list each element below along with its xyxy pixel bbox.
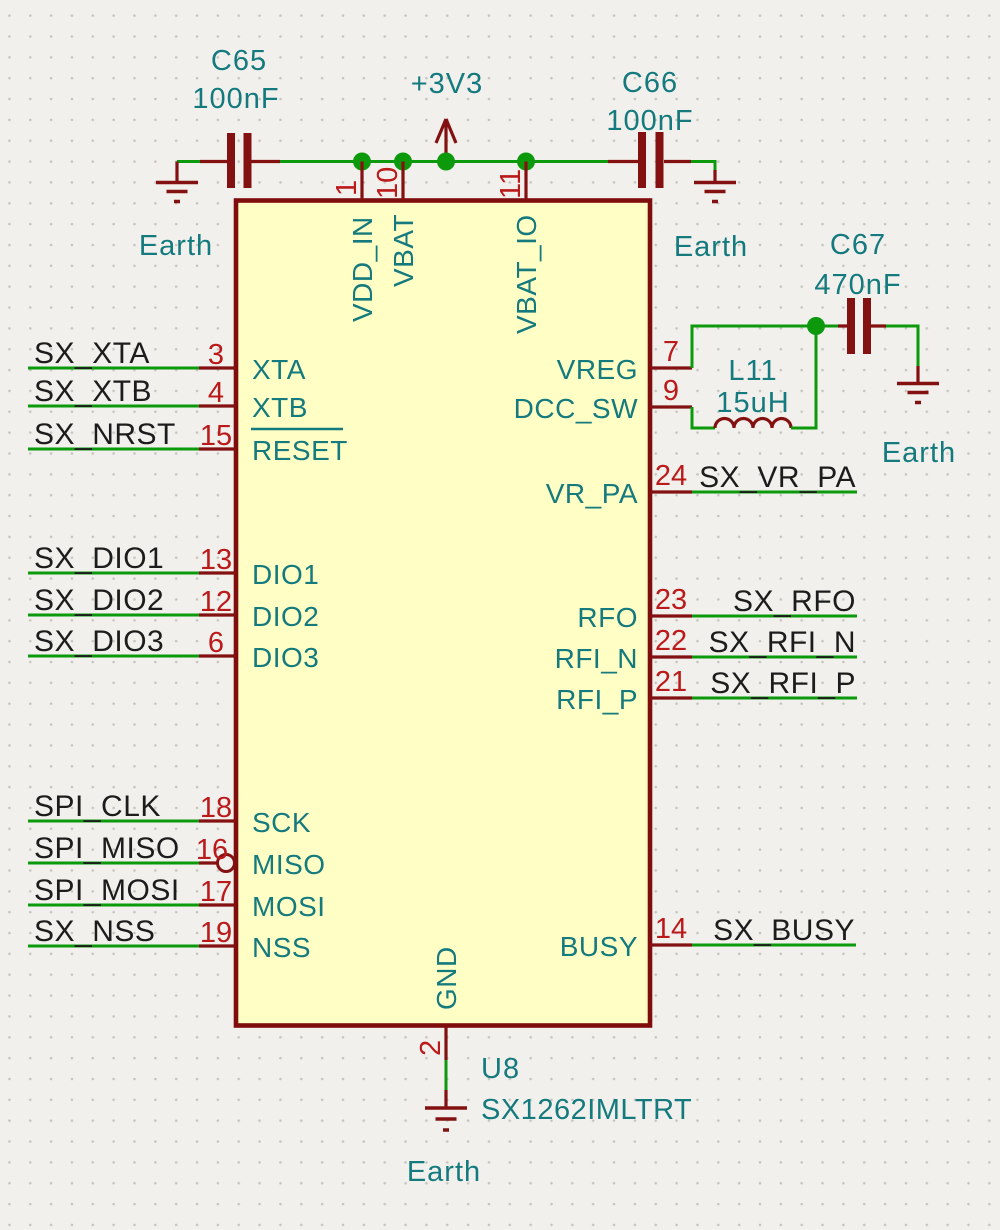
svg-text:SX_NRST: SX_NRST <box>34 418 176 451</box>
svg-text:12: 12 <box>200 586 232 618</box>
svg-text:VREG: VREG <box>557 354 638 385</box>
junction (C67 node) <box>807 317 825 335</box>
value 470nF <box>814 269 901 301</box>
net label SX_NRST <box>34 418 176 451</box>
svg-text:Earth: Earth <box>882 437 956 469</box>
junction (pin 10) <box>394 153 412 171</box>
svg-text:100nF: 100nF <box>192 83 279 115</box>
net label SX_XTB <box>34 375 152 408</box>
IC U8 body <box>236 201 650 1026</box>
value 15uH <box>716 387 789 419</box>
pin 15 RESET <box>199 420 348 466</box>
svg-text:C67: C67 <box>830 229 886 261</box>
pin 10 VBAT <box>372 162 419 288</box>
wire SX_VR_PA <box>692 491 857 494</box>
pin 9 DCC_SW <box>514 375 692 424</box>
wire VREG to node <box>692 326 816 368</box>
wire SPI_MISO <box>28 862 199 865</box>
svg-text:C66: C66 <box>622 67 678 99</box>
svg-text:Earth: Earth <box>407 1156 481 1188</box>
wire SX_XTA <box>28 367 199 370</box>
svg-text:SPI_MOSI: SPI_MOSI <box>34 874 180 907</box>
wire node to C67 <box>816 325 838 328</box>
ground (top right) <box>694 170 736 202</box>
pin 4 XTB <box>199 377 308 423</box>
svg-text:SX_DIO3: SX_DIO3 <box>34 625 164 658</box>
svg-text:470nF: 470nF <box>814 269 901 301</box>
junction (pin 1) <box>353 153 371 171</box>
wire SX_BUSY <box>692 944 856 947</box>
svg-text:VR_PA: VR_PA <box>546 478 638 509</box>
wire C66 to right ground <box>691 162 715 173</box>
wire SX_RFO <box>692 615 857 618</box>
wire DCC_SW to L11 <box>692 407 715 428</box>
svg-text:4: 4 <box>208 377 224 409</box>
svg-text:MOSI: MOSI <box>252 891 326 922</box>
pin 12 DIO2 <box>199 586 319 632</box>
svg-text:XTB: XTB <box>252 392 308 423</box>
svg-text:SX_DIO1: SX_DIO1 <box>34 542 164 575</box>
junction (pin 11) <box>517 153 535 171</box>
pin 21 RFI_P <box>556 666 692 715</box>
svg-text:RFI_P: RFI_P <box>556 684 638 715</box>
svg-text:VBAT_IO: VBAT_IO <box>511 214 542 334</box>
net label SX_XTA <box>34 337 150 370</box>
label C67 <box>830 229 886 261</box>
pin 2 GND <box>415 946 462 1060</box>
svg-text:SX1262IMLTRT: SX1262IMLTRT <box>481 1094 692 1126</box>
svg-text:SCK: SCK <box>252 807 311 838</box>
svg-text:2: 2 <box>415 1040 447 1056</box>
wire SX_DIO1 <box>28 572 199 575</box>
svg-text:DIO1: DIO1 <box>252 559 319 590</box>
svg-text:SX_RFI_P: SX_RFI_P <box>710 667 856 700</box>
net label SX_RFI_P <box>710 667 856 700</box>
wire C67 to ground <box>886 326 918 366</box>
wire SX_DIO3 <box>28 655 199 658</box>
pin 18 SCK <box>199 792 311 838</box>
svg-text:SPI_CLK: SPI_CLK <box>34 790 161 823</box>
wire SX_NSS <box>28 945 199 948</box>
net label SPI_MOSI <box>34 874 180 907</box>
wire L11 to node <box>791 326 816 428</box>
svg-text:SX_RFI_N: SX_RFI_N <box>709 626 856 659</box>
value 100nF (C66) <box>606 105 693 137</box>
svg-text:L11: L11 <box>728 355 777 387</box>
ground (C67) <box>897 366 939 403</box>
svg-text:VDD_IN: VDD_IN <box>347 216 378 322</box>
svg-text:+3V3: +3V3 <box>411 68 484 100</box>
capacitor C65 <box>200 133 280 188</box>
wire SX_RFI_N <box>692 656 857 659</box>
svg-text:MISO: MISO <box>252 849 326 880</box>
label Earth (C67) <box>882 437 956 469</box>
svg-text:14: 14 <box>655 913 687 945</box>
label Earth (GND) <box>407 1156 481 1188</box>
svg-text:SX_BUSY: SX_BUSY <box>713 914 855 947</box>
svg-text:DCC_SW: DCC_SW <box>514 393 638 424</box>
pin 19 NSS <box>199 917 311 963</box>
label Earth (top left) <box>139 230 213 262</box>
pin 16 MISO (inverted) <box>196 834 326 880</box>
svg-text:19: 19 <box>200 917 232 949</box>
svg-text:RFI_N: RFI_N <box>555 643 638 674</box>
svg-text:Earth: Earth <box>139 230 213 262</box>
power +3V3 <box>436 119 456 162</box>
ground (top left) <box>156 162 198 202</box>
ground (GND) <box>425 1090 467 1130</box>
reference U8 <box>481 1053 520 1085</box>
svg-text:7: 7 <box>663 336 679 368</box>
svg-text:XTA: XTA <box>252 354 306 385</box>
svg-text:17: 17 <box>200 876 232 908</box>
svg-text:NSS: NSS <box>252 932 311 963</box>
svg-text:1: 1 <box>331 180 363 196</box>
svg-text:3: 3 <box>208 339 224 371</box>
svg-text:SX_XTB: SX_XTB <box>34 375 152 408</box>
svg-text:C65: C65 <box>211 45 267 77</box>
label L11 <box>728 355 777 387</box>
svg-text:9: 9 <box>663 375 679 407</box>
svg-text:SX_VR_PA: SX_VR_PA <box>699 461 856 494</box>
svg-text:DIO3: DIO3 <box>252 642 319 673</box>
inductor L11 <box>715 419 791 429</box>
svg-text:22: 22 <box>655 625 687 657</box>
capacitor C66 <box>608 132 691 188</box>
svg-text:RFO: RFO <box>577 602 638 633</box>
junction (+3V3) <box>437 153 455 171</box>
wire SX_XTB <box>28 405 199 408</box>
svg-text:VBAT: VBAT <box>388 214 419 287</box>
pin 6 DIO3 <box>199 627 319 673</box>
svg-text:15uH: 15uH <box>716 387 789 419</box>
svg-text:21: 21 <box>655 666 687 698</box>
net label SX_NSS <box>34 915 155 948</box>
value 100nF (C65) <box>192 83 279 115</box>
net label SX_VR_PA <box>699 461 856 494</box>
pin 17 MOSI <box>199 876 326 922</box>
label C65 <box>211 45 267 77</box>
wire top bus left (C65 to ground corner) <box>177 160 200 163</box>
svg-text:15: 15 <box>200 420 232 452</box>
svg-text:DIO2: DIO2 <box>252 601 319 632</box>
svg-text:SX_NSS: SX_NSS <box>34 915 155 948</box>
svg-text:24: 24 <box>655 460 687 492</box>
svg-text:Earth: Earth <box>674 231 748 263</box>
net label SX_DIO2 <box>34 584 164 617</box>
label +3V3 <box>411 68 484 100</box>
svg-text:SPI_MISO: SPI_MISO <box>34 832 180 865</box>
svg-text:SX_XTA: SX_XTA <box>34 337 150 370</box>
capacitor C67 <box>838 298 886 354</box>
svg-text:23: 23 <box>655 584 687 616</box>
svg-text:13: 13 <box>200 544 232 576</box>
svg-text:SX_RFO: SX_RFO <box>733 585 856 618</box>
svg-text:GND: GND <box>431 946 462 1010</box>
svg-text:10: 10 <box>372 167 404 199</box>
net label SX_RFO <box>733 585 856 618</box>
pin 11 VBAT_IO <box>495 162 542 335</box>
pin 23 RFO <box>577 584 692 633</box>
net label SPI_CLK <box>34 790 161 823</box>
wire SX_NRST <box>28 448 199 451</box>
net label SX_RFI_N <box>709 626 856 659</box>
svg-text:SX_DIO2: SX_DIO2 <box>34 584 164 617</box>
pin 14 BUSY <box>560 913 692 962</box>
pin 13 DIO1 <box>199 544 319 590</box>
svg-text:16: 16 <box>196 834 228 866</box>
net label SPI_MISO <box>34 832 180 865</box>
svg-text:U8: U8 <box>481 1053 520 1085</box>
svg-text:18: 18 <box>200 792 232 824</box>
pin 7 VREG <box>557 336 692 385</box>
wire top bus (C65 to C66) <box>280 160 608 163</box>
label C66 <box>622 67 678 99</box>
net label SX_BUSY <box>713 914 855 947</box>
net label SX_DIO1 <box>34 542 164 575</box>
wire GND to ground <box>445 1060 448 1090</box>
wire SPI_MOSI <box>28 904 199 907</box>
wire SPI_CLK <box>28 820 199 823</box>
svg-text:RESET: RESET <box>252 435 348 466</box>
svg-text:6: 6 <box>208 627 224 659</box>
pin 3 XTA <box>199 339 306 385</box>
label Earth (top right) <box>674 231 748 263</box>
pin 24 VR_PA <box>546 460 692 509</box>
value SX1262IMLTRT <box>481 1094 692 1126</box>
net label SX_DIO3 <box>34 625 164 658</box>
wire SX_DIO2 <box>28 614 199 617</box>
pin 1 VDD_IN <box>331 162 378 323</box>
wire SX_RFI_P <box>692 697 857 700</box>
svg-text:BUSY: BUSY <box>560 931 638 962</box>
pin 22 RFI_N <box>555 625 692 674</box>
svg-text:100nF: 100nF <box>606 105 693 137</box>
svg-text:11: 11 <box>495 169 527 199</box>
